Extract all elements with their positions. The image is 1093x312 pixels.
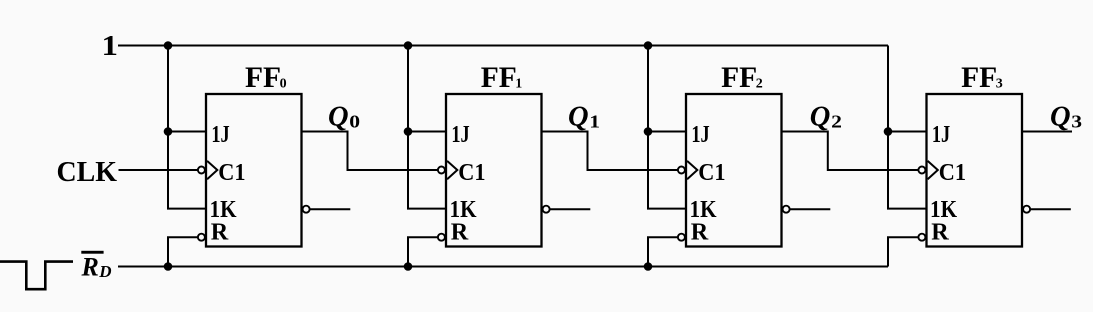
svg-text:C1: C1 bbox=[939, 159, 966, 186]
svg-text:1: 1 bbox=[589, 111, 600, 131]
svg-text:FF: FF bbox=[481, 62, 517, 94]
svg-text:C1: C1 bbox=[698, 159, 725, 186]
svg-text:Q: Q bbox=[568, 101, 589, 132]
svg-text:1J: 1J bbox=[932, 121, 950, 148]
svg-text:1: 1 bbox=[515, 76, 522, 91]
svg-text:Q: Q bbox=[328, 101, 349, 132]
svg-text:Q: Q bbox=[1050, 101, 1071, 132]
svg-text:CLK: CLK bbox=[57, 156, 118, 188]
svg-text:0: 0 bbox=[280, 76, 287, 91]
svg-text:1J: 1J bbox=[451, 121, 469, 148]
svg-text:C1: C1 bbox=[218, 159, 245, 186]
svg-text:1J: 1J bbox=[691, 121, 709, 148]
svg-text:FF: FF bbox=[721, 62, 757, 94]
svg-text:FF: FF bbox=[245, 62, 281, 94]
svg-text:D: D bbox=[98, 262, 111, 281]
svg-text:FF: FF bbox=[961, 62, 997, 94]
svg-text:R: R bbox=[691, 219, 709, 246]
svg-text:1J: 1J bbox=[211, 121, 229, 148]
svg-text:1: 1 bbox=[102, 31, 119, 62]
svg-text:R: R bbox=[931, 219, 949, 246]
svg-text:R: R bbox=[211, 219, 229, 246]
svg-text:R: R bbox=[451, 219, 469, 246]
svg-text:3: 3 bbox=[996, 76, 1003, 91]
svg-text:0: 0 bbox=[349, 111, 360, 131]
svg-text:2: 2 bbox=[831, 111, 842, 131]
svg-text:R: R bbox=[81, 253, 99, 282]
svg-text:Q: Q bbox=[810, 101, 831, 132]
svg-text:3: 3 bbox=[1071, 111, 1082, 131]
svg-text:2: 2 bbox=[756, 76, 763, 91]
svg-text:C1: C1 bbox=[458, 159, 485, 186]
